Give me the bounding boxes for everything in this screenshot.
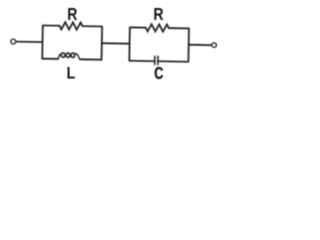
svg-text:C: C xyxy=(154,64,163,84)
svg-text:R: R xyxy=(153,5,163,25)
svg-text:L: L xyxy=(66,64,75,82)
svg-text:R: R xyxy=(67,5,77,25)
